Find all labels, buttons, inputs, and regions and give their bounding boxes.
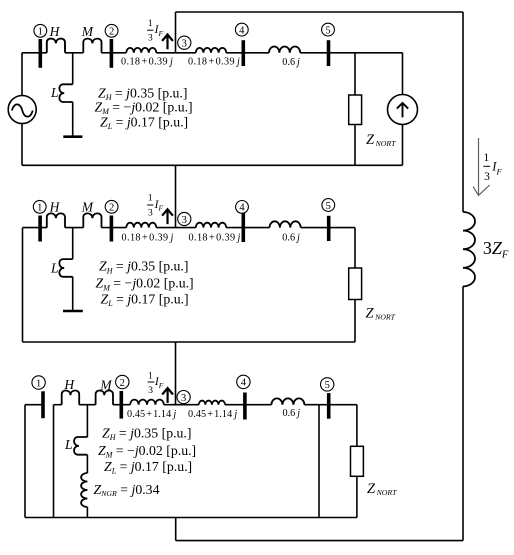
line inductor 0.45+1.14j left (section3)	[130, 400, 164, 405]
node circle 2 (section2)	[105, 200, 118, 213]
line inductor 0.6j (section1)	[269, 47, 300, 53]
wire: section3 delta branch vertical	[53, 405, 55, 518]
transformer winding H (section1)	[47, 39, 65, 53]
wire: node3 vertical to top (section1)	[175, 12, 177, 53]
svg-text:3: 3	[181, 393, 186, 404]
svg-text:M: M	[81, 24, 94, 39]
svg-text:ZH = j0.35 [p.u.]: ZH = j0.35 [p.u.]	[102, 426, 191, 443]
transformer winding L (section3)	[74, 437, 87, 455]
bus bar 4 (section1)	[242, 40, 246, 66]
wire: section2 main bus wire left of bus1	[23, 227, 47, 229]
svg-text:4: 4	[239, 25, 245, 36]
wire: section3 bus2 segment	[113, 404, 130, 406]
wire: L branch vertical (section2)	[72, 228, 74, 311]
wire: section3 right return vertical	[318, 405, 320, 518]
wire: top fault wire	[176, 11, 464, 13]
svg-text:3ZF: 3ZF	[483, 238, 509, 261]
svg-text:5: 5	[325, 380, 330, 391]
bus bar 2 (section1)	[110, 39, 114, 68]
svg-text:4: 4	[241, 378, 247, 389]
svg-text:L: L	[50, 261, 59, 276]
svg-text:3: 3	[148, 207, 153, 218]
line inductor 0.18+0.39j left (section2)	[126, 223, 156, 228]
current arrow 1/3 IF (section2)	[162, 209, 173, 224]
svg-text:1: 1	[36, 378, 41, 389]
AC source G1 sine	[12, 104, 33, 116]
wire: section3 bottom rail	[25, 517, 357, 519]
wire: vertical from section2 rail to node3 (section3)	[175, 342, 177, 405]
svg-text:ZL = j0.17 [p.u.]: ZL = j0.17 [p.u.]	[101, 291, 189, 308]
svg-text:1: 1	[484, 152, 490, 164]
svg-text:ZM = −j0.02 [p.u.]: ZM = −j0.02 [p.u.]	[98, 443, 196, 460]
bus bar 1 (section2)	[38, 216, 42, 242]
line inductor 0.6j (section2)	[270, 221, 301, 227]
svg-text:IF: IF	[491, 160, 502, 177]
svg-text:IF: IF	[154, 199, 164, 213]
svg-text:M: M	[99, 377, 112, 392]
wire: Znort branch bottom (section1)	[354, 125, 356, 166]
transformer winding M (section3)	[96, 391, 113, 405]
svg-text:IF: IF	[154, 376, 164, 390]
fault current arrow IF down	[473, 138, 490, 195]
svg-text:0.18+0.39j: 0.18+0.39j	[121, 57, 173, 68]
svg-text:ZNGR = j0.34: ZNGR = j0.34	[94, 482, 160, 498]
svg-text:0.6j: 0.6j	[283, 408, 301, 419]
wire: section3 left vertical	[24, 405, 26, 518]
wire: section2 left vertical	[22, 228, 24, 342]
svg-text:M: M	[81, 200, 94, 215]
node circle 5 (section1)	[322, 23, 335, 36]
impedance Z_NORT rect (section1)	[349, 95, 362, 125]
wire: vertical from section1 rail to node3 (section2)	[175, 165, 177, 227]
grounding inductor Z_NGR coil (section3)	[81, 473, 87, 507]
wire: section1 bottom rail	[22, 164, 403, 166]
svg-text:H: H	[49, 200, 61, 215]
line inductor 0.6j (section3)	[271, 398, 304, 404]
bus bar 1 (section1)	[38, 39, 42, 68]
svg-text:1: 1	[148, 18, 153, 29]
wire: section2 bus2 to line coil1	[102, 227, 127, 229]
bus bar 4 (section3)	[243, 393, 247, 420]
transformer winding M (section1)	[83, 39, 101, 53]
wire: right vertical below 3ZF	[462, 286, 464, 540]
svg-text:1: 1	[148, 193, 153, 204]
wire: section2 bus4 segment	[226, 227, 269, 229]
svg-text:0.18+0.39j: 0.18+0.39j	[122, 232, 174, 243]
svg-text:1: 1	[37, 203, 42, 214]
wire: section3 between H and M	[79, 404, 95, 406]
line inductor 0.18+0.39j right (section2)	[196, 223, 226, 228]
bus bar 1 (section3)	[41, 391, 45, 418]
node circle 4 (section3)	[237, 375, 250, 388]
svg-text:1: 1	[38, 27, 43, 38]
svg-text:0.6j: 0.6j	[282, 57, 300, 68]
impedance Z_NORT rect (section2)	[349, 268, 362, 300]
svg-text:ZL = j0.17 [p.u.]: ZL = j0.17 [p.u.]	[100, 114, 188, 131]
svg-text:ZNORT: ZNORT	[366, 306, 396, 322]
wire: section1 main bus wire left of bus1	[22, 52, 47, 54]
svg-text:1: 1	[148, 370, 153, 381]
bus bar 5 (section2)	[327, 216, 331, 241]
wire: section3 node3 segment	[164, 404, 199, 406]
svg-text:0.45+1.14j: 0.45+1.14j	[127, 409, 176, 420]
transformer winding M (section2)	[83, 213, 101, 227]
wire: section1 bus4 segment	[226, 52, 269, 54]
current source I1 arrow	[397, 103, 408, 117]
node circle 1 (section1)	[34, 24, 47, 37]
transformer winding L (section1)	[59, 84, 72, 102]
svg-text:2: 2	[109, 27, 114, 38]
svg-text:3: 3	[148, 385, 153, 396]
bus bar 5 (section3)	[327, 393, 331, 419]
transformer winding L (section2)	[59, 259, 72, 277]
svg-text:5: 5	[325, 25, 330, 36]
svg-text:ZNORT: ZNORT	[366, 132, 396, 148]
wire: section2 bottom rail	[23, 341, 356, 343]
node circle 2 (section3)	[116, 375, 129, 388]
node circle 1 (section3)	[32, 376, 45, 389]
wire: section3 bus1 stub	[25, 404, 43, 406]
svg-text:L: L	[64, 437, 73, 452]
node circle 4 (section1)	[235, 23, 248, 36]
svg-text:ZL = j0.17 [p.u.]: ZL = j0.17 [p.u.]	[104, 459, 192, 476]
wire: L-NGR branch vertical (section3)	[86, 405, 88, 518]
wire: section1 left drop to source	[21, 53, 23, 96]
node circle 5 (section3)	[321, 378, 334, 391]
svg-text:3: 3	[148, 33, 153, 44]
wire: section1 node3 segment	[156, 52, 196, 54]
node circle 3 (section3)	[177, 391, 190, 404]
transformer winding H (section3)	[62, 391, 79, 405]
impedance Z_NORT rect (section3)	[351, 446, 364, 476]
ground bar (section1)	[63, 135, 82, 138]
line inductor 0.45+1.14j right (section3)	[199, 401, 225, 405]
bus bar 2 (section3)	[120, 391, 124, 419]
svg-text:ZNORT: ZNORT	[367, 481, 397, 497]
svg-text:0.18+0.39j: 0.18+0.39j	[188, 57, 240, 68]
svg-text:2: 2	[109, 203, 114, 214]
svg-text:2: 2	[120, 378, 125, 389]
wire: section1 between H and M	[65, 52, 83, 54]
svg-text:3: 3	[182, 215, 187, 226]
wire: source bottom to rail	[21, 124, 23, 166]
wire: fault drop from section3 rail	[175, 518, 177, 541]
wire: Znort branch top (section1)	[354, 53, 356, 95]
bus bar 2 (section2)	[110, 216, 114, 242]
current arrow 1/3 IF (section1)	[162, 35, 173, 50]
bus bar 5 (section1)	[327, 40, 331, 66]
wire: Znort branch bottom (section3)	[356, 476, 358, 517]
fault impedance 3ZF coil	[463, 212, 475, 286]
svg-text:ZM = −j0.02 [p.u.]: ZM = −j0.02 [p.u.]	[96, 276, 194, 293]
wire: section2 node3 segment	[156, 227, 196, 229]
AC source G1 circle	[8, 96, 36, 124]
node circle 3 (section2)	[178, 212, 191, 225]
node circle 3 (section1)	[178, 36, 191, 49]
wire: right vertical above 3ZF	[462, 12, 464, 212]
current arrow 1/3 IF (section3)	[162, 388, 173, 403]
node circle 4 (section2)	[236, 201, 249, 214]
bus bar 4 (section2)	[242, 213, 246, 242]
svg-text:4: 4	[239, 203, 245, 214]
svg-text:0.6j: 0.6j	[282, 232, 300, 243]
wire: section3 delta branch to H	[54, 404, 62, 406]
node circle 1 (section2)	[33, 200, 46, 213]
svg-text:5: 5	[326, 201, 331, 212]
wire: section1 bus2 to line coil1	[102, 52, 127, 54]
line inductor 0.18+0.39j right (section1)	[196, 48, 226, 53]
svg-text:3: 3	[182, 39, 187, 50]
wire: L branch vertical (section1)	[72, 53, 74, 137]
line inductor 0.18+0.39j left (section1)	[126, 48, 156, 53]
wire: section2 between H and M	[65, 227, 83, 229]
wire: current source top	[402, 53, 404, 95]
wire: Znort branch top (section3)	[356, 405, 358, 447]
node circle 2 (section1)	[105, 24, 118, 37]
ground bar (section2)	[63, 310, 83, 313]
wire: Znort branch top (section2)	[354, 228, 356, 268]
wire: section3 bus5 to Znort corner	[304, 404, 357, 406]
transformer winding H (section2)	[47, 213, 65, 227]
svg-text:0.18+0.39j: 0.18+0.39j	[189, 232, 241, 243]
wire: section3 bus4 segment	[225, 404, 271, 406]
wire: section2 bus5 to Znort corner	[301, 227, 355, 229]
wire: current source bottom	[402, 125, 404, 166]
svg-text:H: H	[49, 24, 61, 39]
svg-text:ZH = j0.35 [p.u.]: ZH = j0.35 [p.u.]	[99, 259, 188, 276]
svg-text:L: L	[50, 85, 59, 100]
wire: Znort branch bottom (section2)	[354, 300, 356, 343]
svg-text:3: 3	[484, 171, 490, 183]
current source I1 circle	[388, 95, 418, 125]
svg-text:IF: IF	[154, 24, 164, 38]
node circle 5 (section2)	[322, 199, 335, 212]
svg-text:0.45+1.14j: 0.45+1.14j	[188, 409, 237, 420]
svg-text:H: H	[63, 377, 75, 392]
wire: section1 bus5 to current source	[300, 52, 402, 54]
wire: bottom fault wire	[176, 540, 463, 542]
